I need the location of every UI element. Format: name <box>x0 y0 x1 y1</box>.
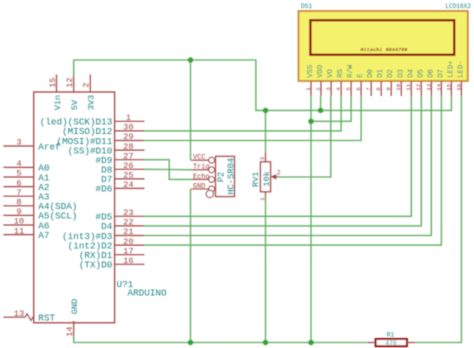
svg-text:Vin: Vin <box>53 95 63 110</box>
DS1 pin 6 (E) <box>355 73 365 96</box>
wire U?1 D11 to DS1 E (pin 6) <box>144 96 361 141</box>
svg-text:17: 17 <box>123 246 133 256</box>
svg-text:R/W: R/W <box>347 64 355 78</box>
svg-text:D6: D6 <box>427 69 435 78</box>
svg-text:Echo: Echo <box>193 173 210 181</box>
svg-text:30: 30 <box>123 123 133 133</box>
svg-text:Aref: Aref <box>38 141 60 152</box>
wire U?1 D5 to DS1 D4 (pin 11) <box>144 96 411 216</box>
svg-text:11: 11 <box>14 226 24 236</box>
U?1 pin 8 (A4(SDA)) <box>3 198 77 213</box>
svg-text:10k: 10k <box>262 171 272 186</box>
wire U?1 D8 to P2 Trig <box>144 168 192 171</box>
svg-text:VCC: VCC <box>193 154 205 162</box>
svg-text:E: E <box>357 73 365 77</box>
svg-text:3: 3 <box>16 138 21 148</box>
U?1 pin 29 ((MOSI)#D11) <box>57 132 145 147</box>
svg-text:LCD16X2: LCD16X2 <box>445 3 471 10</box>
svg-text:Trig: Trig <box>193 164 210 172</box>
DS1 pin 12 (D5) <box>415 69 425 96</box>
svg-text:R1: R1 <box>387 331 395 338</box>
RV1 pin 3 stub <box>265 152 267 162</box>
DS1 pin 15 (LED+) <box>445 61 455 96</box>
DS1 body (yellow module outline) <box>299 11 468 81</box>
svg-text:4: 4 <box>335 87 342 91</box>
svg-text:HC-SR04: HC-SR04 <box>226 158 236 195</box>
svg-text:13: 13 <box>14 309 24 319</box>
svg-text:29: 29 <box>123 132 133 142</box>
U?1 pin 2 (3V3) <box>82 75 97 111</box>
svg-text:20: 20 <box>123 237 133 247</box>
wire U?1 D4 to DS1 D5 (pin 12) <box>144 96 421 226</box>
svg-text:D7: D7 <box>437 69 445 78</box>
svg-text:15: 15 <box>48 78 58 88</box>
svg-text:D2: D2 <box>387 69 395 78</box>
svg-text:8: 8 <box>375 87 382 91</box>
svg-text:6: 6 <box>16 178 21 188</box>
wire R1 right to DS1 LED- (pin 16) <box>415 96 461 343</box>
DS1 display screen rectangle <box>310 20 454 55</box>
svg-text:1: 1 <box>305 87 312 91</box>
wire 5V net: U?1 5V pin up, across top, down at x=256, across to LED+ riser <box>74 60 452 110</box>
resistor R1 body <box>376 339 407 346</box>
svg-text:RV1: RV1 <box>251 172 261 187</box>
svg-text:22: 22 <box>123 218 133 228</box>
DS1 pin 3 (VO) <box>325 69 335 96</box>
DS1 pin 5 (R/W) <box>345 64 355 96</box>
svg-text:6: 6 <box>355 87 362 91</box>
DS1 pin 4 (RS) <box>335 69 345 96</box>
wire DS1 R/W (pin 5) to VSS/GND net <box>311 96 351 121</box>
U?1 pin 24 (#D6) <box>96 180 145 195</box>
U?1 pin 11 (A7) <box>3 226 49 241</box>
svg-text:25: 25 <box>123 171 133 181</box>
DS1 pin 1 (VSS) <box>305 65 315 96</box>
svg-text:3V3: 3V3 <box>87 95 97 110</box>
svg-text:5: 5 <box>16 169 21 179</box>
U?1 pin 28 ((SS)#D10) <box>68 142 145 157</box>
connector P2 HC-SR04 body <box>216 156 235 196</box>
RV1 wiper arrow (pin 2) <box>271 169 281 179</box>
U?1 pin 6 (A2) <box>3 178 49 193</box>
DS1 pin 16 (LED-) <box>455 61 465 96</box>
junction 5V rail / DS1 VDD <box>318 108 323 113</box>
svg-text:1: 1 <box>126 113 131 123</box>
U?1 pin 14 (GND) <box>65 299 80 337</box>
svg-text:21: 21 <box>123 227 133 237</box>
svg-text:(TX)D0: (TX)D0 <box>79 260 112 271</box>
DS1 pin 10 (D3) <box>395 69 405 96</box>
wire RV1 pin 1 down to GND rail <box>265 196 267 343</box>
svg-text:GND: GND <box>193 183 205 191</box>
svg-text:470: 470 <box>385 340 396 347</box>
svg-text:P2: P2 <box>217 172 227 183</box>
svg-text:27: 27 <box>123 151 133 161</box>
junction VSS riser / R-W rail <box>308 119 313 124</box>
svg-text:23: 23 <box>123 208 133 218</box>
svg-text:D5: D5 <box>417 69 425 78</box>
svg-text:14: 14 <box>65 327 75 337</box>
P2 pin VCC <box>191 154 215 163</box>
svg-text:VDD: VDD <box>317 65 325 78</box>
svg-text:ARDUINO: ARDUINO <box>128 288 167 299</box>
potentiometer RV1 body <box>260 162 270 192</box>
DS1 pin 8 (D1) <box>375 69 385 96</box>
DS1 pin 14 (D7) <box>435 69 445 96</box>
U?1 pin 20 ((int2)D2) <box>68 237 145 252</box>
svg-text:8: 8 <box>16 198 21 208</box>
U?1 pin 4 (A0) <box>3 159 49 174</box>
IC U?1 ARDUINO body <box>34 92 115 323</box>
svg-text:15: 15 <box>445 83 452 90</box>
wire 5V branch up to DS1 VDD (pin 2) <box>320 96 322 110</box>
svg-text:LED-: LED- <box>457 61 465 78</box>
svg-text:3: 3 <box>325 87 332 91</box>
junction GND rail / RV1 pin 1 <box>263 340 268 345</box>
junction 5V rail / P2 VCC drop <box>188 57 193 62</box>
svg-text:13: 13 <box>425 83 432 90</box>
P2 pin Echo <box>191 173 215 182</box>
svg-text:10: 10 <box>395 83 402 90</box>
U?1 pin 12 (5V) <box>65 75 80 111</box>
R1 left pin stub <box>367 342 375 344</box>
wire GND rail from U?1 GND pin to R1 left <box>74 336 368 343</box>
junction 5V rail / RV1 pin 3 drop <box>263 108 268 113</box>
svg-text:D1: D1 <box>377 69 385 78</box>
wire U?1 D3 to DS1 D6 (pin 13) <box>144 96 431 236</box>
svg-text:VSS: VSS <box>307 65 315 78</box>
U?1 pin 5 (A1) <box>3 169 49 184</box>
U?1 pin 16 ((TX)D0) <box>79 256 145 271</box>
svg-text:Hitachi HD44780: Hitachi HD44780 <box>360 47 407 53</box>
svg-text:2: 2 <box>315 87 322 91</box>
U?1 pin 27 (#D9) <box>96 151 145 166</box>
U?1 pin 23 (#D5) <box>96 208 145 223</box>
svg-text:3: 3 <box>259 156 266 160</box>
DS1 pin 2 (VDD) <box>315 65 325 96</box>
junction GND rail / DS1 VSS <box>308 340 313 345</box>
DS1 pin 9 (D2) <box>385 69 395 96</box>
U?1 pin 30 ((MISO)D12) <box>62 123 144 138</box>
U?1 pin 9 (A5(SCL)) <box>3 207 77 222</box>
svg-text:5V: 5V <box>70 99 80 110</box>
DS1 pin 13 (D6) <box>425 69 435 96</box>
svg-text:9: 9 <box>385 87 392 91</box>
U?1 pin 17 ((RX)D1) <box>79 246 145 261</box>
wire DS1 VSS (pin 1) down to GND rail <box>310 96 312 343</box>
svg-text:24: 24 <box>123 180 133 190</box>
wire U?1 D9 to P2 Echo <box>144 160 192 180</box>
svg-text:RS: RS <box>337 69 345 78</box>
RV1 pin 1 stub <box>265 192 267 201</box>
svg-text:28: 28 <box>123 142 133 152</box>
svg-text:10: 10 <box>14 217 24 227</box>
U?1 pin 1 ((led)(SCK)D13) <box>40 113 145 128</box>
wire RV1 wiper to DS1 VO (pin 3) <box>277 96 331 177</box>
svg-text:26: 26 <box>123 161 133 171</box>
U?1 pin 10 (A6) <box>3 217 49 232</box>
svg-text:DS1: DS1 <box>301 3 313 10</box>
svg-text:16: 16 <box>455 83 462 90</box>
svg-text:4: 4 <box>16 159 21 169</box>
junction GND rail / P2 GND <box>188 340 193 345</box>
svg-text:14: 14 <box>435 83 442 90</box>
DS1 pin 11 (D4) <box>405 69 415 96</box>
U?1 pin 7 (A3) <box>3 188 49 203</box>
svg-text:7: 7 <box>365 87 372 91</box>
svg-text:GND: GND <box>70 299 80 314</box>
U?1 pin 3 (Aref) <box>3 138 60 153</box>
U?1 pin 15 (Vin) <box>48 75 63 111</box>
svg-text:A7: A7 <box>38 230 49 241</box>
svg-text:RST: RST <box>38 313 55 324</box>
U?1 pin 13 (RST) <box>3 309 55 324</box>
svg-text:D0: D0 <box>367 69 375 78</box>
wire P2 GND down to GND rail <box>190 189 192 343</box>
svg-text:VO: VO <box>327 69 335 78</box>
svg-text:D4: D4 <box>407 69 415 78</box>
svg-text:12: 12 <box>415 83 422 90</box>
wire 5V branch down to RV1 pin 3 <box>265 110 267 152</box>
P2 pin GND <box>191 183 215 192</box>
svg-text:#D6: #D6 <box>96 184 113 195</box>
wire U?1 D12 to DS1 RS (pin 4) <box>144 96 341 131</box>
U?1 pin 26 (D8) <box>101 161 144 176</box>
svg-text:LED+: LED+ <box>447 61 455 78</box>
wire U?1 D2 to DS1 D7 (pin 14) <box>144 96 441 245</box>
svg-text:2: 2 <box>277 169 281 176</box>
wire 5V branch down to P2 VCC <box>190 60 192 160</box>
U?1 pin 22 (D4) <box>101 218 144 233</box>
svg-text:12: 12 <box>65 78 75 88</box>
P2 mounting pad circle <box>206 190 213 197</box>
svg-text:16: 16 <box>123 256 133 266</box>
U?1 pin 25 (D7) <box>101 171 144 186</box>
R1 right pin stub <box>407 342 415 344</box>
P2 pin Trig <box>191 164 215 173</box>
svg-text:2: 2 <box>82 83 92 88</box>
svg-text:7: 7 <box>16 188 21 198</box>
svg-text:11: 11 <box>405 83 412 90</box>
svg-text:D3: D3 <box>397 69 405 78</box>
U?1 pin 21 ((int3)#D3) <box>62 227 144 242</box>
svg-text:9: 9 <box>16 207 21 217</box>
svg-text:5: 5 <box>345 87 352 91</box>
DS1 pin 7 (D0) <box>365 69 375 96</box>
